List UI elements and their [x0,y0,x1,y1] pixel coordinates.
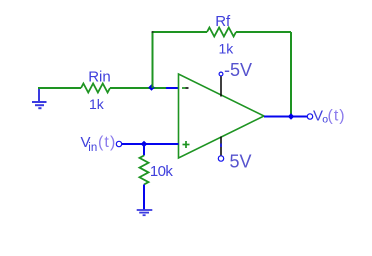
wire op-amp output [264,116,307,118]
label Vo(t) [313,108,346,126]
svg-text:10k: 10k [150,163,173,180]
svg-text:1k: 1k [89,96,105,112]
terminal circle Vin [116,141,121,146]
terminal circle -5V [219,72,223,76]
pin 5V vertical (bottom power pin) [220,137,222,156]
svg-text:Rin: Rin [88,69,111,86]
ground GND2 (bottom) [137,210,153,215]
wire Rin to inverting node [110,87,166,89]
wire ground to Rin [38,87,81,89]
wire junction down to R10k [143,144,145,156]
node A junction (inverting input) [148,84,155,91]
svg-text:1k: 1k [219,41,235,57]
node corner dark pixel [152,31,154,33]
wire R10k to ground [143,185,145,210]
op-amp plus sign [183,141,190,148]
node B junction (output) [288,113,295,120]
terminal circle Vo [307,114,312,119]
label Vin(t) [81,134,117,154]
svg-text:(t): (t) [328,108,346,125]
wire feedback vertical right [290,32,292,117]
node C junction (plus input) [141,141,148,148]
wire feedback top left [153,31,208,33]
resistor R10k [140,156,149,185]
wire feedback vertical left [152,32,154,88]
svg-text:Rf: Rf [215,13,231,30]
op-amp minus sign [182,87,189,89]
svg-text:in: in [88,142,97,154]
terminal circle 5V [218,156,223,161]
wire feedback top right [236,31,291,33]
svg-text:5V: 5V [230,152,252,172]
wire Vin to plus input [122,143,179,145]
pin -5V vertical (top power pin) [220,76,222,97]
resistor Rin [81,84,110,93]
ground GND1 (left) [32,88,47,108]
op-amp U1 triangle [179,74,265,158]
op-amp negative pin stub [166,87,179,89]
svg-text:(t): (t) [98,134,116,151]
resistor Rf [207,28,236,37]
svg-text:-5V: -5V [224,60,252,80]
